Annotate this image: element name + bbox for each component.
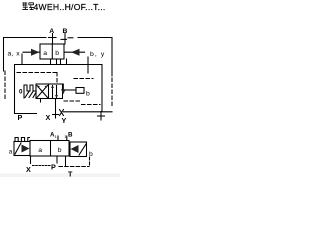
svg-text:A: A bbox=[49, 28, 54, 35]
svg-text:b: b bbox=[55, 50, 59, 57]
svg-text:0: 0 bbox=[19, 89, 23, 96]
svg-text:a: a bbox=[38, 147, 42, 154]
svg-text:4WEH..H/OF...T...: 4WEH..H/OF...T... bbox=[34, 2, 106, 12]
svg-text:b: b bbox=[86, 91, 90, 98]
svg-text:P: P bbox=[51, 163, 56, 172]
svg-text:Y: Y bbox=[62, 116, 67, 125]
svg-text:a, x: a, x bbox=[8, 51, 21, 58]
svg-text:X: X bbox=[26, 165, 31, 174]
svg-text:X: X bbox=[46, 113, 51, 122]
svg-text:T: T bbox=[68, 170, 73, 179]
svg-text:a: a bbox=[43, 50, 47, 57]
svg-text:P: P bbox=[18, 113, 23, 122]
svg-text:b: b bbox=[58, 147, 62, 154]
svg-text:1: 1 bbox=[55, 134, 58, 139]
svg-text:b: b bbox=[89, 151, 93, 158]
svg-text:b, y: b, y bbox=[90, 51, 105, 58]
svg-text:B: B bbox=[63, 28, 68, 35]
svg-text:B: B bbox=[68, 132, 73, 139]
svg-text:a: a bbox=[9, 149, 13, 156]
